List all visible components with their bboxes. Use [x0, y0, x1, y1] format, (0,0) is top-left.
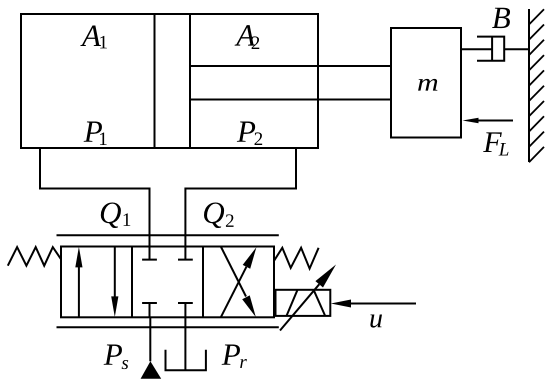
label B	[492, 8, 510, 28]
u arrow shaft	[351, 303, 417, 305]
wall hatching	[529, 9, 544, 162]
valve up arrow head	[75, 247, 82, 268]
label Q1	[101, 202, 121, 228]
label Pr	[222, 345, 240, 365]
piston rod	[190, 65, 391, 67]
damper B cup	[477, 37, 504, 61]
cross arrow up shaft	[221, 267, 247, 318]
cross arrow up head	[243, 247, 257, 269]
u arrow head	[331, 300, 351, 308]
pipe Q1	[40, 148, 150, 247]
proportional arrow shaft	[280, 284, 319, 330]
valve body	[61, 247, 274, 318]
damper B rod right	[504, 48, 529, 50]
wall	[528, 9, 530, 162]
proportional arrow head	[315, 265, 336, 288]
solenoid box	[276, 290, 331, 316]
port stub top left	[142, 247, 157, 260]
load force FL arrow shaft	[478, 120, 514, 122]
valve rail top	[57, 234, 279, 236]
label FL	[483, 132, 502, 152]
mass m	[391, 28, 461, 138]
tank symbol	[166, 350, 206, 371]
valve down arrow shaft	[114, 247, 116, 302]
piston	[154, 14, 156, 148]
cross arrow down shaft	[221, 247, 246, 297]
valve down arrow head	[111, 296, 118, 317]
label P1	[84, 122, 102, 142]
label A1	[80, 26, 101, 46]
port stub top right	[178, 247, 193, 260]
Pr pipe	[184, 317, 186, 370]
label Q2	[204, 202, 224, 228]
label A2	[235, 25, 256, 45]
solenoid slash 2	[314, 290, 325, 316]
FL arrow head	[463, 118, 479, 123]
cross arrow down head	[242, 295, 256, 317]
valve up arrow shaft	[78, 262, 80, 317]
damper B piston	[491, 37, 493, 61]
port stub bottom left	[142, 303, 157, 317]
damper B rod left	[461, 48, 492, 50]
label u	[370, 314, 382, 327]
Ps source triangle	[141, 361, 162, 379]
Ps pipe	[149, 317, 151, 361]
left spring	[8, 247, 61, 266]
cylinder body	[21, 14, 318, 148]
port stub bottom right	[178, 303, 193, 317]
solenoid slash	[287, 290, 298, 316]
right spring	[274, 248, 319, 269]
label Ps	[104, 345, 122, 365]
label P2	[237, 122, 255, 142]
pipe Q2	[185, 148, 296, 247]
label m	[418, 79, 437, 91]
valve rail bottom	[57, 326, 279, 328]
